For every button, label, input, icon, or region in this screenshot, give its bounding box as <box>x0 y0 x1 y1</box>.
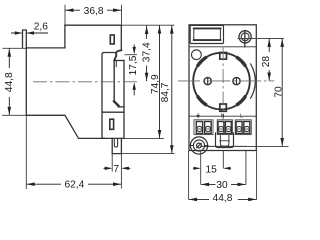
svg-text:30: 30 <box>216 180 228 191</box>
svg-text:17,5: 17,5 <box>128 55 139 75</box>
svg-text:62,4: 62,4 <box>64 180 84 191</box>
svg-text:70: 70 <box>274 86 285 98</box>
svg-text:L: L <box>240 113 243 119</box>
svg-text:44,8: 44,8 <box>213 193 233 204</box>
svg-text:N: N <box>221 113 225 119</box>
svg-text:7: 7 <box>113 164 119 175</box>
svg-text:36,8: 36,8 <box>84 6 104 17</box>
svg-text:2,6: 2,6 <box>34 22 48 33</box>
svg-text:28: 28 <box>261 56 272 68</box>
svg-text:84,7: 84,7 <box>160 82 171 102</box>
svg-text:37,4: 37,4 <box>141 42 152 62</box>
svg-text:44,8: 44,8 <box>4 72 15 92</box>
svg-text:15: 15 <box>206 164 218 175</box>
